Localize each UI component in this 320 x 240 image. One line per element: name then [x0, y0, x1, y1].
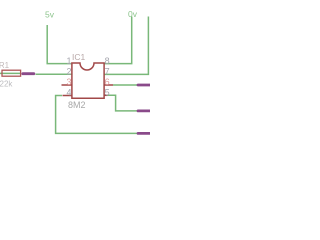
svg-text:2: 2: [66, 67, 71, 77]
svg-text:6: 6: [105, 77, 110, 87]
svg-text:IC1: IC1: [72, 52, 86, 62]
svg-text:7: 7: [105, 67, 110, 77]
svg-text:8: 8: [105, 56, 110, 66]
svg-text:4: 4: [66, 87, 71, 97]
svg-text:R1: R1: [0, 61, 10, 70]
svg-text:3: 3: [66, 77, 71, 87]
svg-text:5: 5: [105, 87, 110, 97]
svg-text:8M2: 8M2: [68, 100, 86, 110]
svg-text:22k: 22k: [0, 79, 13, 88]
svg-text:1: 1: [66, 56, 71, 66]
svg-text:5v: 5v: [45, 10, 55, 20]
svg-text:0v: 0v: [128, 9, 138, 19]
